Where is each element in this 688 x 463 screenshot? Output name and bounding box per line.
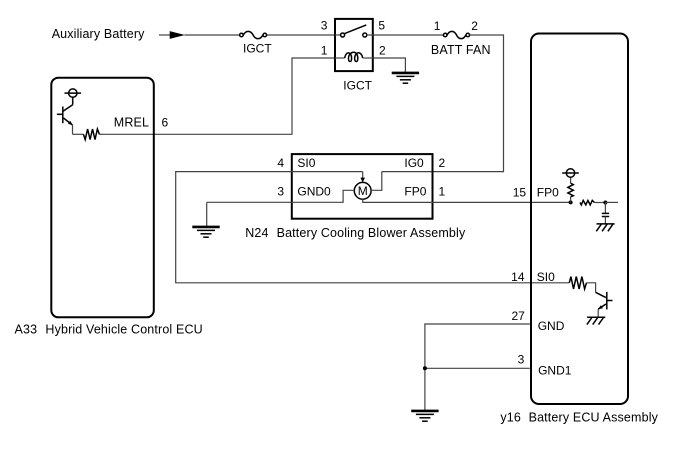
resistor SI0 series (569, 277, 586, 289)
svg-text:A33: A33 (15, 323, 38, 337)
resistor FP0 series (580, 200, 594, 205)
wire node to right stub (605, 201, 618, 203)
svg-text:3: 3 (518, 353, 525, 367)
svg-text:SI0: SI0 (537, 270, 555, 284)
svg-text:FP0: FP0 (537, 185, 559, 199)
fuse IGCT (240, 31, 273, 55)
svg-text:27: 27 (511, 309, 525, 323)
svg-text:2: 2 (439, 156, 446, 170)
svg-text:3: 3 (277, 184, 284, 198)
resistor FP0 pull-up (568, 177, 573, 202)
svg-text:2: 2 (471, 19, 478, 33)
motor M (blower) (354, 182, 371, 199)
svg-text:GND1: GND1 (538, 363, 572, 377)
battery ECU y16 box (531, 34, 628, 405)
wire fuse BATT FAN to IG0 (382, 35, 504, 172)
blower N24 box (292, 154, 433, 219)
svg-text:FP0: FP0 (404, 184, 426, 198)
relay IGCT box (335, 19, 373, 71)
wire IG0 to motor (371, 172, 382, 191)
svg-text:N24: N24 (245, 226, 268, 240)
transistor Q (A33 MREL driver) (57, 97, 84, 134)
svg-text:5: 5 (378, 18, 385, 32)
ECU A33 box (51, 78, 154, 318)
svg-text:6: 6 (162, 116, 169, 130)
wire SI0 pin 4 net (176, 172, 570, 283)
svg-text:Hybrid Vehicle Control ECU: Hybrid Vehicle Control ECU (45, 323, 202, 337)
wire GND0 pin 3 net (207, 190, 355, 202)
svg-text:1: 1 (321, 43, 328, 57)
svg-text:GND: GND (538, 319, 565, 333)
ground (GND/GND1) (411, 411, 438, 421)
transistor Q (y16 SI0) (596, 292, 613, 317)
svg-text:14: 14 (511, 270, 525, 284)
wire GND pin 27 (425, 324, 530, 410)
chassis ground (FP0 filter) (596, 224, 614, 231)
junction dot GND (423, 366, 427, 370)
wire relay pin 1 to MREL net (103, 58, 334, 134)
wire from Auxiliary Battery to arrow (159, 34, 170, 36)
chassis ground (SI0 transistor) (587, 317, 605, 324)
wire fuse IGCT to relay pin 3 (267, 34, 334, 36)
svg-text:Battery ECU Assembly: Battery ECU Assembly (529, 411, 659, 425)
ground (relay coil) (392, 73, 419, 83)
junction dot FP0 filter (603, 201, 607, 205)
svg-text:2: 2 (379, 43, 386, 57)
svg-text:IGCT: IGCT (243, 41, 272, 55)
wire relay pin 2 to ground (374, 58, 406, 72)
wire resistor to MREL pin (99, 133, 103, 135)
power symbol (y16 FP0) (562, 169, 579, 177)
junction dot FP0 (569, 200, 573, 204)
wire resistor to node (594, 202, 605, 204)
relay switch contact (335, 25, 373, 37)
arrow feed direction (170, 31, 185, 39)
svg-text:BATT FAN: BATT FAN (431, 43, 491, 57)
svg-text:1: 1 (434, 19, 441, 33)
svg-text:15: 15 (513, 185, 527, 199)
ground (GND0) (192, 227, 219, 237)
svg-text:SI0: SI0 (297, 156, 315, 170)
resistor in A33 (83, 129, 99, 140)
svg-text:Auxiliary Battery: Auxiliary Battery (52, 27, 145, 41)
wire GND1 pin 3 (425, 367, 530, 369)
wire arrow to fuse IGCT (185, 34, 240, 36)
capacitor C (FP0 filter) (602, 202, 609, 223)
svg-text:Battery Cooling Blower Assembl: Battery Cooling Blower Assembly (277, 226, 466, 240)
svg-text:4: 4 (277, 156, 284, 170)
svg-text:GND0: GND0 (297, 184, 331, 198)
svg-text:MREL: MREL (114, 115, 149, 129)
power symbol in A33 (65, 89, 82, 97)
svg-text:1: 1 (439, 184, 446, 198)
svg-text:IGCT: IGCT (343, 79, 372, 93)
svg-text:M: M (358, 184, 368, 198)
arrow into motor (360, 172, 365, 183)
wire relay pin 5 to fuse BATT FAN (374, 34, 444, 36)
svg-text:IG0: IG0 (404, 156, 424, 170)
svg-text:3: 3 (321, 18, 328, 32)
relay coil (335, 52, 373, 61)
wire resistor to transistor (587, 283, 596, 293)
svg-text:y16: y16 (500, 411, 521, 425)
fuse BATT FAN (431, 19, 491, 57)
wire GND0 to ground (206, 202, 208, 226)
wire motor to FP0 pin 1 net (363, 199, 571, 202)
